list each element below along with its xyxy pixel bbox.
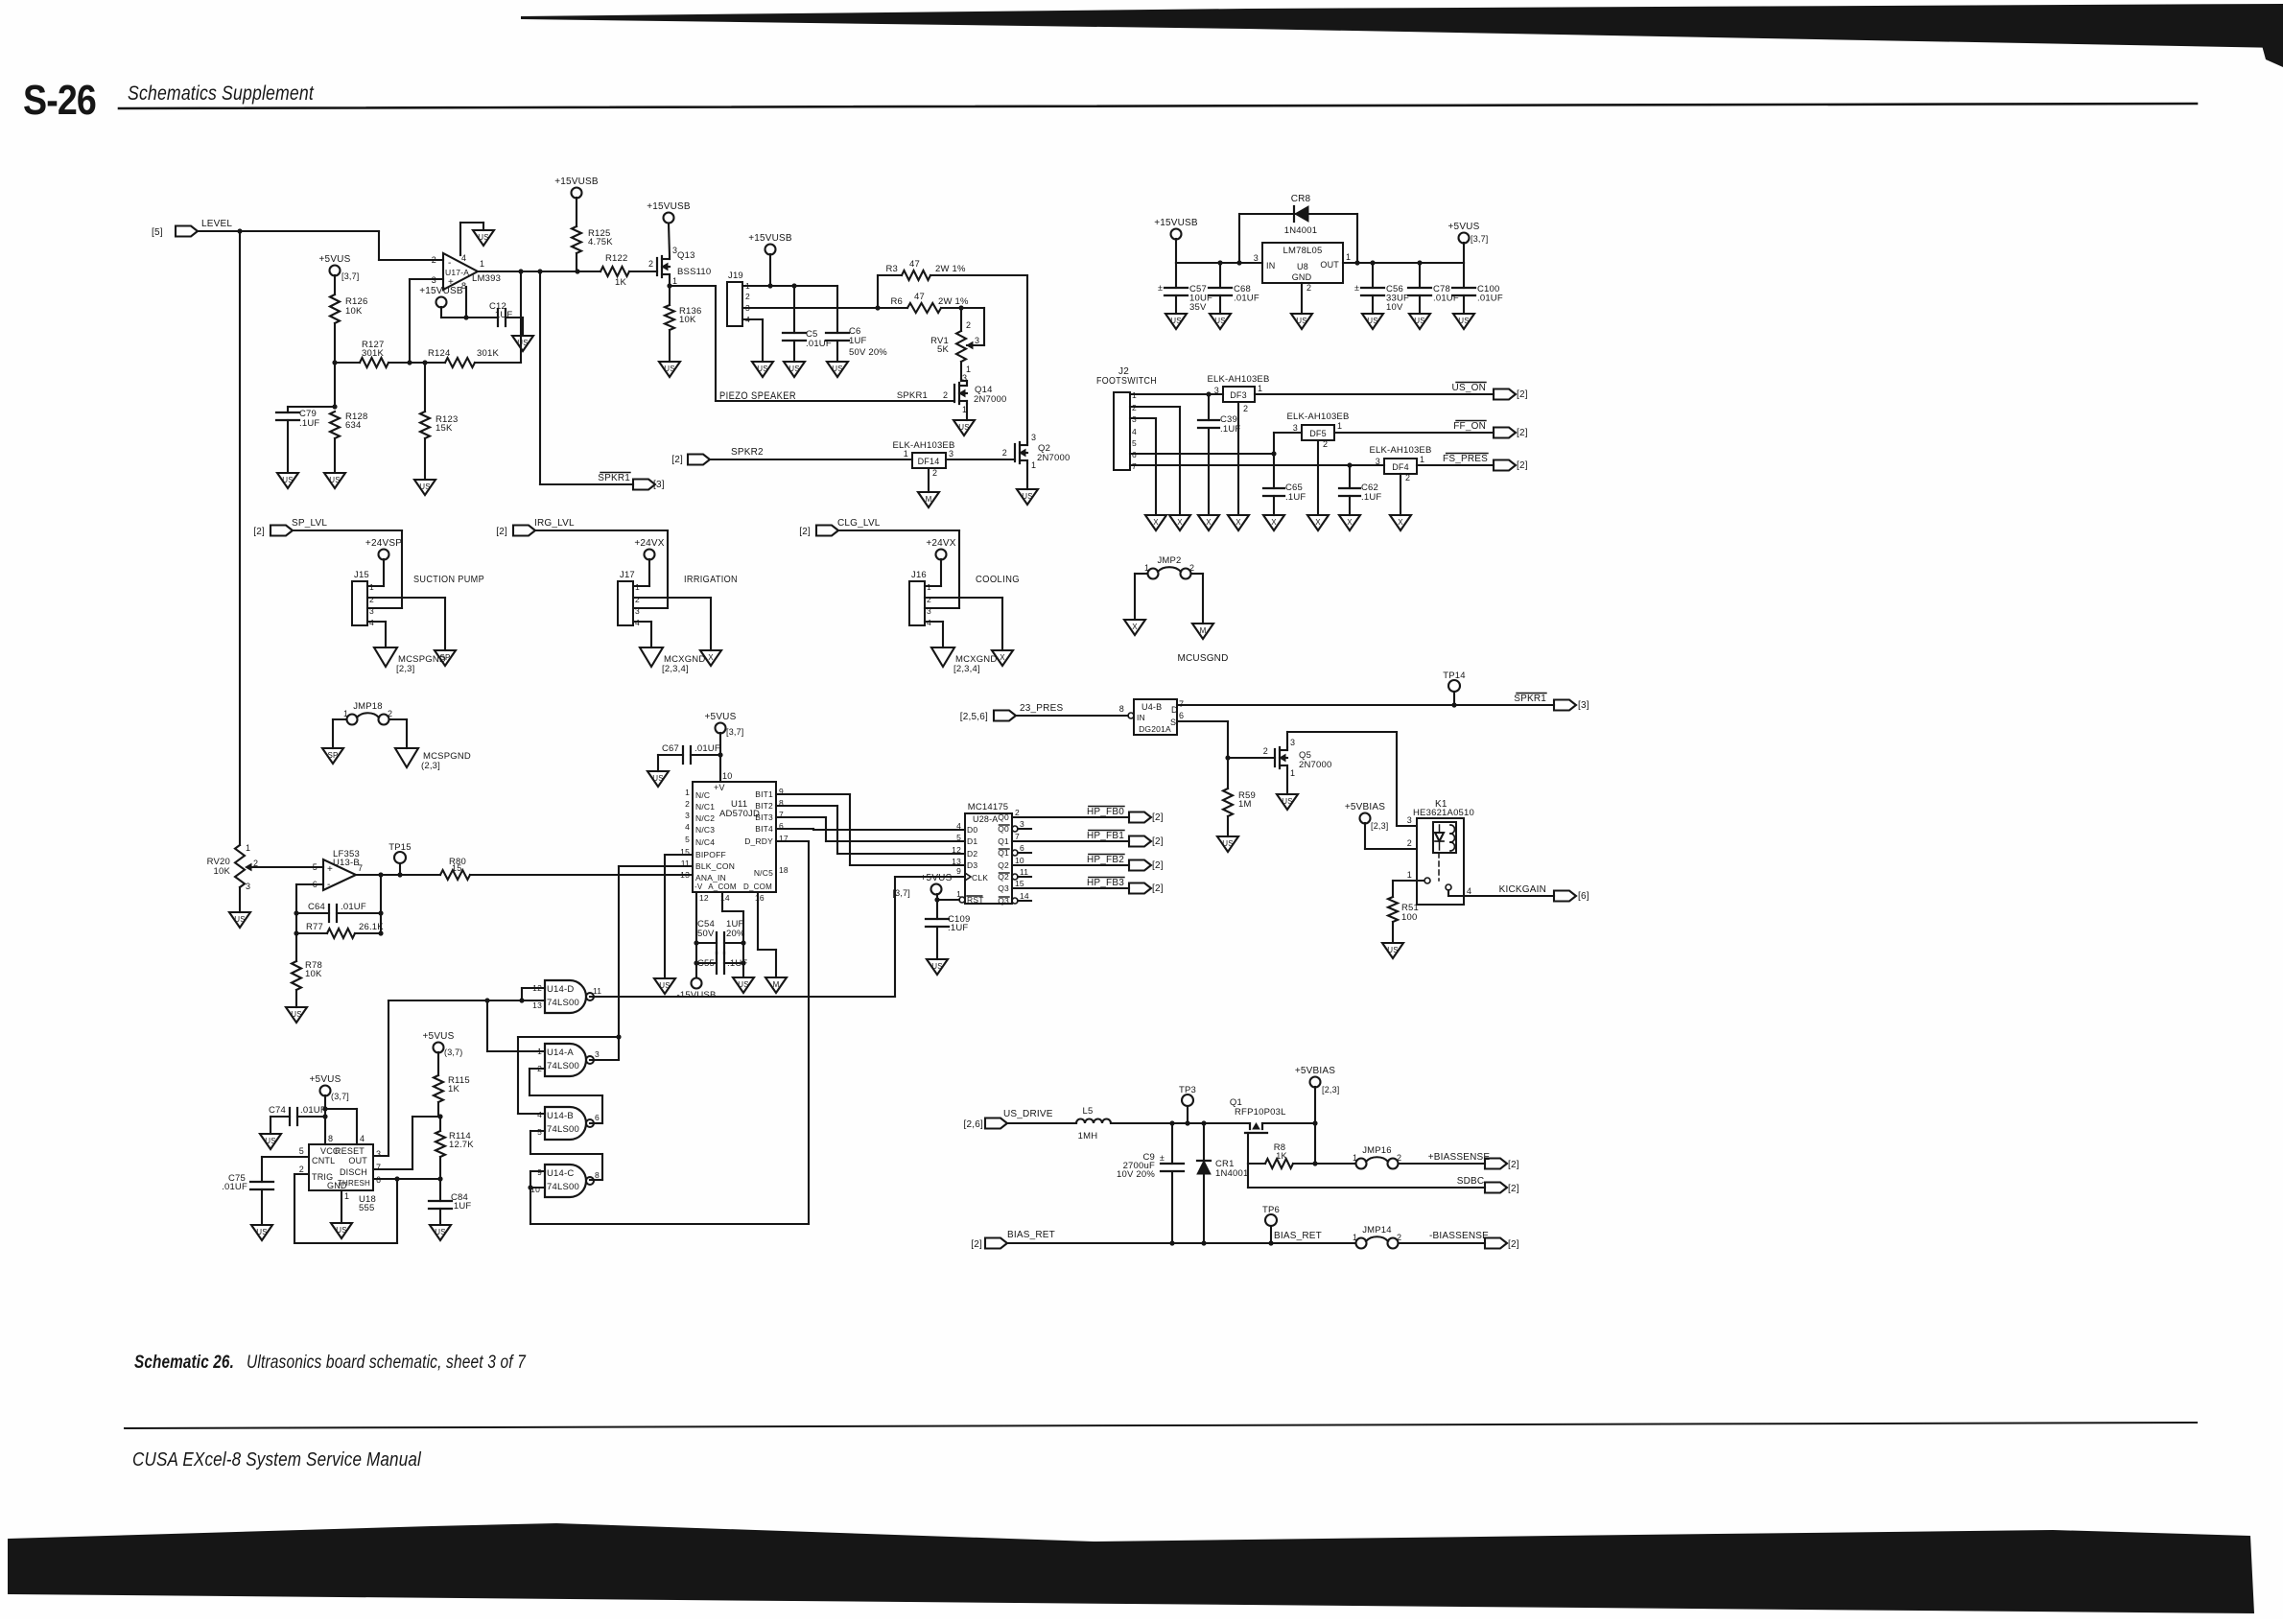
- svg-text:X: X: [1315, 518, 1321, 527]
- svg-text:+5VBIAS: +5VBIAS: [1295, 1066, 1335, 1076]
- svg-text:[2]: [2]: [1517, 460, 1528, 471]
- svg-text:74LS00: 74LS00: [547, 998, 579, 1008]
- svg-text:S-26: S-26: [23, 77, 96, 124]
- svg-text:13: 13: [680, 870, 690, 880]
- svg-text:BIT3: BIT3: [755, 812, 773, 822]
- svg-text:+15VUSB: +15VUSB: [419, 286, 463, 296]
- svg-text:14: 14: [1020, 891, 1029, 901]
- svg-text:HP_FB2: HP_FB2: [1087, 855, 1124, 865]
- svg-text:US: US: [265, 1137, 276, 1145]
- svg-text:US: US: [659, 981, 671, 990]
- svg-text:4: 4: [956, 821, 961, 831]
- svg-text:HE3621A0510: HE3621A0510: [1413, 808, 1474, 818]
- svg-text:2: 2: [1263, 746, 1268, 756]
- svg-text:US: US: [1458, 317, 1470, 325]
- svg-text:S: S: [1170, 718, 1176, 727]
- svg-text:3: 3: [1290, 738, 1295, 747]
- svg-text:X: X: [1177, 518, 1183, 527]
- svg-text:US: US: [256, 1228, 268, 1236]
- svg-text:4: 4: [537, 1110, 542, 1119]
- svg-text:8: 8: [595, 1170, 600, 1180]
- svg-text:[2]: [2]: [1517, 428, 1528, 438]
- svg-text:1N4001: 1N4001: [1215, 1168, 1248, 1179]
- svg-text:DG201A: DG201A: [1139, 724, 1171, 734]
- svg-text:1: 1: [1407, 870, 1412, 880]
- svg-text:TP3: TP3: [1179, 1085, 1196, 1095]
- svg-text:10: 10: [1015, 856, 1024, 865]
- svg-text:[3]: [3]: [1578, 700, 1589, 711]
- svg-text:DF14: DF14: [918, 457, 940, 466]
- svg-text:+5VUS: +5VUS: [319, 254, 351, 265]
- svg-text:74LS00: 74LS00: [547, 1182, 579, 1192]
- svg-text:3: 3: [376, 1149, 381, 1159]
- svg-text:CR8: CR8: [1291, 194, 1311, 204]
- svg-text:US: US: [329, 476, 341, 484]
- svg-text:D_RDY: D_RDY: [744, 836, 773, 846]
- svg-text:1: 1: [1258, 384, 1262, 393]
- svg-text:J19: J19: [728, 271, 743, 281]
- svg-text:9: 9: [956, 866, 961, 876]
- svg-text:[2]: [2]: [1508, 1184, 1519, 1194]
- svg-text:2N7000: 2N7000: [1299, 760, 1331, 770]
- svg-text:301K: 301K: [362, 348, 384, 359]
- svg-text:.1UF: .1UF: [1285, 492, 1306, 503]
- svg-text:[2,6]: [2,6]: [964, 1119, 983, 1130]
- svg-text:DISCH: DISCH: [340, 1167, 367, 1177]
- svg-text:[2,3,4]: [2,3,4]: [953, 664, 980, 674]
- svg-text:1: 1: [1290, 768, 1295, 778]
- svg-text:.01UF: .01UF: [222, 1182, 247, 1192]
- svg-text:AD570JD: AD570JD: [719, 809, 760, 819]
- svg-text:SDBC: SDBC: [1457, 1176, 1485, 1187]
- svg-text:±: ±: [1158, 283, 1163, 293]
- svg-text:.1UF: .1UF: [492, 310, 512, 320]
- svg-text:IRG_LVL: IRG_LVL: [534, 518, 575, 529]
- svg-text:2: 2: [1405, 473, 1410, 482]
- svg-text:16: 16: [755, 893, 765, 903]
- svg-text:D3: D3: [967, 860, 977, 870]
- svg-text:BIAS_RET: BIAS_RET: [1007, 1230, 1055, 1240]
- svg-text:.1UF: .1UF: [948, 923, 968, 933]
- svg-text:M: M: [1200, 626, 1207, 635]
- svg-text:4: 4: [360, 1134, 365, 1143]
- svg-text:US: US: [1296, 317, 1307, 325]
- svg-text:7: 7: [358, 863, 363, 873]
- svg-text:10K: 10K: [345, 306, 363, 317]
- svg-text:7: 7: [376, 1163, 381, 1172]
- svg-text:R124: R124: [428, 348, 451, 359]
- svg-text:7: 7: [1015, 832, 1020, 841]
- svg-text:[2,3]: [2,3]: [1371, 821, 1389, 831]
- svg-text:18: 18: [779, 865, 788, 875]
- svg-text:Q0: Q0: [998, 812, 1009, 822]
- svg-text:.1UF: .1UF: [1220, 424, 1240, 435]
- svg-text:US: US: [435, 1228, 446, 1236]
- svg-text:C55: C55: [697, 958, 715, 969]
- svg-text:3: 3: [1031, 433, 1036, 442]
- svg-text:2W 1%: 2W 1%: [938, 296, 969, 307]
- svg-text:[2]: [2]: [1152, 883, 1164, 894]
- svg-text:JMP14: JMP14: [1362, 1225, 1392, 1236]
- svg-text:TP14: TP14: [1443, 671, 1466, 681]
- svg-text:C74: C74: [269, 1105, 286, 1116]
- svg-text:4: 4: [1467, 886, 1471, 896]
- svg-text:5: 5: [956, 833, 961, 842]
- svg-text:15: 15: [452, 863, 461, 873]
- svg-text:2: 2: [648, 259, 653, 269]
- svg-text:SUCTION PUMP: SUCTION PUMP: [413, 574, 484, 585]
- svg-text:3: 3: [962, 373, 967, 383]
- svg-text:J16: J16: [911, 570, 927, 580]
- svg-text:1: 1: [1420, 455, 1424, 464]
- svg-text:3: 3: [1376, 457, 1380, 466]
- svg-text:[3,7]: [3,7]: [892, 888, 910, 898]
- svg-text:Q1: Q1: [998, 836, 1009, 846]
- svg-text:26.1K: 26.1K: [359, 922, 384, 932]
- svg-text:100: 100: [1401, 912, 1417, 923]
- svg-text:[2]: [2]: [1152, 812, 1164, 823]
- svg-text:4: 4: [685, 822, 690, 832]
- svg-text:20%: 20%: [726, 929, 745, 939]
- svg-text:10V 20%: 10V 20%: [1117, 1169, 1155, 1180]
- svg-text:X: X: [1271, 518, 1277, 527]
- svg-text:1: 1: [343, 709, 348, 718]
- svg-text:12: 12: [952, 845, 961, 855]
- svg-text:47: 47: [909, 259, 920, 270]
- svg-text:[2,3]: [2,3]: [1322, 1085, 1340, 1094]
- svg-text:KICKGAIN: KICKGAIN: [1499, 884, 1546, 895]
- svg-text:BIAS_RET: BIAS_RET: [1274, 1231, 1322, 1241]
- svg-text:N/C5: N/C5: [754, 868, 773, 878]
- svg-text:2: 2: [299, 1165, 304, 1174]
- svg-text:2N7000: 2N7000: [1037, 453, 1070, 463]
- svg-text:+5VBIAS: +5VBIAS: [1345, 802, 1385, 812]
- svg-text:5: 5: [299, 1146, 304, 1156]
- svg-text:U13-B: U13-B: [333, 858, 360, 868]
- svg-text:C67: C67: [662, 743, 679, 754]
- svg-text:X: X: [1000, 653, 1005, 662]
- svg-text:5: 5: [313, 862, 318, 872]
- svg-text:8: 8: [1119, 704, 1124, 714]
- svg-text:US: US: [1414, 317, 1425, 325]
- svg-text:[2]: [2]: [253, 527, 265, 537]
- svg-text:D0: D0: [967, 825, 977, 835]
- svg-text:US: US: [1387, 946, 1399, 954]
- svg-text:GND: GND: [1292, 272, 1312, 282]
- svg-text:.1UF: .1UF: [1361, 492, 1381, 503]
- svg-text:2: 2: [1397, 1153, 1401, 1163]
- svg-text:Q2: Q2: [998, 860, 1009, 870]
- svg-text:BSS110: BSS110: [677, 267, 711, 277]
- svg-text:[2]: [2]: [971, 1239, 982, 1250]
- svg-text:[2]: [2]: [799, 527, 811, 537]
- svg-text:2: 2: [1243, 404, 1248, 413]
- svg-text:6: 6: [595, 1113, 600, 1122]
- svg-text:US: US: [832, 365, 843, 373]
- svg-text:3: 3: [1020, 819, 1024, 829]
- svg-text:[3,7]: [3,7]: [341, 271, 360, 281]
- svg-text:THRESH: THRESH: [338, 1179, 370, 1188]
- svg-text:1K: 1K: [1276, 1151, 1286, 1161]
- svg-text:SP: SP: [327, 751, 338, 760]
- svg-text:US: US: [1222, 839, 1234, 848]
- svg-text:US: US: [1282, 797, 1293, 806]
- svg-text:LEVEL: LEVEL: [201, 219, 232, 229]
- svg-text:.01UF: .01UF: [1234, 294, 1259, 304]
- svg-text:[6]: [6]: [1578, 891, 1589, 902]
- svg-text:(3,7]: (3,7]: [331, 1092, 349, 1101]
- svg-text:U28-A: U28-A: [973, 814, 999, 824]
- svg-text:3: 3: [246, 882, 250, 891]
- svg-text:U14-D: U14-D: [547, 984, 574, 995]
- svg-text:TP6: TP6: [1262, 1205, 1280, 1215]
- svg-text:U14-C: U14-C: [547, 1168, 574, 1179]
- svg-text:1N4001: 1N4001: [1284, 225, 1317, 236]
- svg-text:1: 1: [672, 276, 677, 286]
- svg-text:N/C: N/C: [695, 790, 710, 800]
- svg-text:2: 2: [685, 799, 690, 809]
- svg-text:US: US: [1214, 317, 1226, 325]
- svg-text:+15VUSB: +15VUSB: [748, 233, 792, 244]
- svg-text:1: 1: [344, 1191, 349, 1201]
- svg-text:Q3: Q3: [998, 883, 1009, 893]
- svg-text:JMP2: JMP2: [1157, 555, 1181, 566]
- svg-text:US: US: [958, 423, 970, 432]
- svg-text:8: 8: [328, 1134, 333, 1143]
- svg-text:2: 2: [1323, 439, 1328, 449]
- svg-text:2: 2: [1189, 563, 1194, 573]
- svg-text:J17: J17: [620, 570, 635, 580]
- svg-text:US: US: [931, 962, 943, 971]
- svg-text:X: X: [1153, 518, 1159, 527]
- svg-text:3: 3: [1214, 386, 1219, 395]
- svg-text:3: 3: [949, 449, 953, 459]
- svg-text:U8: U8: [1297, 262, 1308, 271]
- svg-text:5K: 5K: [937, 344, 949, 355]
- svg-text:FF_ON: FF_ON: [1453, 421, 1486, 432]
- svg-text:+5VUS: +5VUS: [1448, 222, 1480, 232]
- svg-text:15: 15: [1015, 879, 1024, 888]
- svg-text:5: 5: [1132, 438, 1137, 448]
- svg-text:R3: R3: [885, 264, 898, 274]
- svg-text:HP_FB0: HP_FB0: [1087, 807, 1124, 817]
- svg-text:3: 3: [975, 336, 979, 345]
- svg-text:.1UF: .1UF: [299, 418, 319, 429]
- svg-text:X: X: [1347, 518, 1353, 527]
- svg-text:2: 2: [1306, 283, 1311, 293]
- svg-text:US: US: [1170, 317, 1182, 325]
- svg-text:Schematic 26.: Schematic 26.: [134, 1353, 234, 1373]
- svg-text:CUSA EXcel-8 System Service Ma: CUSA EXcel-8 System Service Manual: [132, 1449, 421, 1471]
- svg-text:US_DRIVE: US_DRIVE: [1003, 1109, 1053, 1119]
- svg-text:1: 1: [1353, 1233, 1357, 1242]
- svg-text:[2]: [2]: [1508, 1239, 1519, 1250]
- svg-text:HP_FB3: HP_FB3: [1087, 878, 1124, 888]
- svg-text:301K: 301K: [477, 348, 499, 359]
- svg-text:FOOTSWITCH: FOOTSWITCH: [1096, 375, 1157, 387]
- svg-text:1: 1: [962, 405, 967, 414]
- svg-text:74LS00: 74LS00: [547, 1061, 579, 1071]
- svg-text:US: US: [282, 476, 294, 484]
- svg-text:+15VUSB: +15VUSB: [647, 201, 691, 212]
- svg-text:RESET: RESET: [335, 1146, 365, 1156]
- svg-text:DF5: DF5: [1309, 429, 1327, 438]
- svg-text:13: 13: [952, 857, 961, 866]
- svg-text:.01UF: .01UF: [694, 743, 720, 754]
- svg-text:BLK_CON: BLK_CON: [695, 861, 735, 871]
- svg-text:[3,7]: [3,7]: [1471, 234, 1489, 244]
- svg-text:[2]: [2]: [1152, 836, 1164, 847]
- svg-text:13: 13: [532, 1000, 542, 1010]
- svg-text:634: 634: [345, 420, 361, 431]
- svg-text:LM78L05: LM78L05: [1283, 246, 1322, 256]
- svg-text:Q13: Q13: [677, 250, 695, 261]
- svg-text:1: 1: [537, 1047, 542, 1056]
- svg-text:BIT1: BIT1: [755, 789, 773, 799]
- svg-text:4.75K: 4.75K: [588, 237, 613, 247]
- svg-text:BIPOFF: BIPOFF: [695, 850, 726, 859]
- svg-text:.1UF: .1UF: [727, 958, 747, 969]
- svg-text:1: 1: [246, 843, 250, 853]
- svg-text:US: US: [664, 365, 675, 373]
- svg-text:CNTL: CNTL: [312, 1156, 335, 1165]
- svg-text:2: 2: [745, 292, 750, 301]
- svg-text:[2]: [2]: [496, 527, 507, 537]
- svg-text:555: 555: [359, 1203, 374, 1213]
- svg-text:±: ±: [1160, 1153, 1165, 1163]
- svg-text:X: X: [1398, 518, 1403, 527]
- svg-text:74LS00: 74LS00: [547, 1124, 579, 1135]
- svg-text:-15VUSB: -15VUSB: [676, 990, 716, 1000]
- svg-text:IN: IN: [1137, 713, 1145, 722]
- svg-text:D1: D1: [967, 836, 977, 846]
- svg-text:BIT2: BIT2: [755, 801, 773, 811]
- svg-text:15K: 15K: [435, 423, 453, 434]
- svg-text:+V: +V: [714, 783, 725, 792]
- svg-text:35V: 35V: [1189, 302, 1207, 313]
- svg-text:[2]: [2]: [671, 455, 683, 465]
- svg-text:LM393: LM393: [472, 273, 501, 284]
- svg-text:M: M: [926, 495, 932, 504]
- svg-text:R6: R6: [890, 296, 903, 307]
- svg-text:-V: -V: [694, 883, 703, 891]
- svg-text:(2,3]: (2,3]: [421, 761, 440, 771]
- svg-text:2: 2: [1002, 448, 1007, 458]
- svg-text:JMP18: JMP18: [353, 701, 383, 712]
- svg-text:3: 3: [1254, 253, 1259, 263]
- svg-text:.01UF: .01UF: [341, 902, 366, 912]
- svg-text:ELK-AH103EB: ELK-AH103EB: [892, 440, 954, 451]
- svg-text:BIT4: BIT4: [755, 824, 773, 834]
- svg-text:1: 1: [1337, 421, 1342, 431]
- svg-text:SPKR2: SPKR2: [731, 447, 764, 458]
- svg-text:1MH: 1MH: [1078, 1131, 1098, 1142]
- svg-text:-: -: [327, 880, 331, 890]
- svg-text:4: 4: [1132, 427, 1137, 436]
- svg-text:US: US: [478, 233, 489, 242]
- svg-text:DF3: DF3: [1230, 390, 1247, 400]
- svg-text:1K: 1K: [615, 277, 626, 288]
- svg-text:X: X: [1132, 623, 1138, 631]
- svg-text:1: 1: [904, 449, 908, 459]
- svg-text:OUT: OUT: [1320, 260, 1339, 270]
- svg-text:X: X: [1236, 518, 1241, 527]
- svg-text:.1UF: .1UF: [451, 1201, 471, 1212]
- svg-text:ANA_IN: ANA_IN: [695, 873, 726, 883]
- svg-text:50V: 50V: [697, 929, 715, 939]
- svg-text:2: 2: [966, 320, 971, 330]
- svg-text:+5VUS: +5VUS: [423, 1031, 455, 1042]
- svg-text:1: 1: [685, 788, 690, 797]
- svg-text:2: 2: [432, 255, 436, 265]
- svg-text:+24VSP: +24VSP: [365, 538, 402, 549]
- svg-text:Ultrasonics board schematic, s: Ultrasonics board schematic, sheet 3 of …: [247, 1353, 527, 1373]
- svg-text:COOLING: COOLING: [976, 574, 1020, 585]
- svg-text:+15VUSB: +15VUSB: [554, 177, 599, 187]
- svg-text:[5]: [5]: [152, 227, 163, 238]
- svg-text:-BIASSENSE: -BIASSENSE: [1429, 1231, 1489, 1241]
- svg-text:10K: 10K: [213, 866, 230, 877]
- svg-text:5: 5: [685, 835, 690, 844]
- svg-text:3: 3: [595, 1049, 600, 1059]
- svg-text:N/C2: N/C2: [695, 813, 715, 823]
- svg-text:MC14175: MC14175: [968, 802, 1009, 812]
- svg-text:2N7000: 2N7000: [974, 394, 1006, 405]
- svg-text:+24VX: +24VX: [634, 538, 664, 549]
- svg-text:1: 1: [1031, 460, 1036, 470]
- svg-text:JMP16: JMP16: [1362, 1145, 1392, 1156]
- svg-text:3: 3: [685, 811, 690, 820]
- svg-text:D_COM: D_COM: [743, 883, 772, 891]
- svg-text:M: M: [773, 980, 780, 989]
- svg-text:1M: 1M: [1238, 799, 1252, 810]
- svg-text:IRRIGATION: IRRIGATION: [684, 574, 738, 585]
- svg-text:11: 11: [593, 986, 601, 996]
- svg-text:R122: R122: [605, 253, 628, 264]
- svg-text:U14-A: U14-A: [547, 1047, 574, 1058]
- svg-text:FS_PRES: FS_PRES: [1443, 454, 1488, 464]
- svg-text:US: US: [291, 1010, 302, 1019]
- svg-text:D2: D2: [967, 849, 977, 859]
- svg-text:2: 2: [1015, 808, 1020, 817]
- svg-text:12: 12: [699, 893, 709, 903]
- svg-text:+BIASSENSE: +BIASSENSE: [1428, 1152, 1491, 1163]
- svg-text:1: 1: [1144, 563, 1149, 573]
- svg-text:11: 11: [1020, 867, 1028, 877]
- svg-text:10V: 10V: [1386, 302, 1403, 313]
- svg-text:1: 1: [1353, 1153, 1357, 1163]
- svg-text:A_COM: A_COM: [708, 883, 737, 891]
- svg-text:RFP10P03L: RFP10P03L: [1235, 1107, 1286, 1118]
- svg-text:L5: L5: [1083, 1106, 1094, 1117]
- svg-text:[2,3]: [2,3]: [396, 664, 415, 674]
- svg-text:2W 1%: 2W 1%: [935, 264, 966, 274]
- svg-text:US: US: [336, 1226, 347, 1235]
- svg-text:[3,7]: [3,7]: [726, 727, 744, 737]
- svg-text:10K: 10K: [679, 315, 696, 325]
- svg-text:N/C1: N/C1: [695, 802, 715, 812]
- svg-text:+5VUS: +5VUS: [921, 873, 953, 883]
- svg-text:J15: J15: [354, 570, 369, 580]
- svg-text:CLK: CLK: [972, 873, 988, 883]
- svg-text:±: ±: [1354, 283, 1359, 293]
- svg-text:6: 6: [1020, 843, 1024, 853]
- svg-text:SPKR1: SPKR1: [1514, 694, 1546, 704]
- svg-text:MCUSGND: MCUSGND: [1177, 653, 1228, 664]
- svg-text:US: US: [517, 339, 529, 347]
- svg-text:[2,5,6]: [2,5,6]: [960, 712, 988, 722]
- svg-text:TP15: TP15: [388, 842, 412, 853]
